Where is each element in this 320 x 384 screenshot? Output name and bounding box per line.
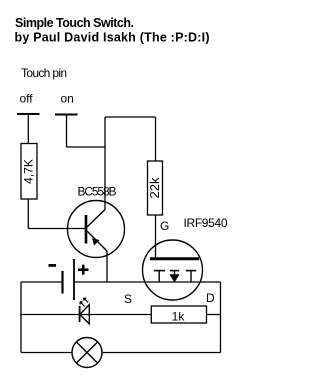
svg-text:D: D — [206, 291, 215, 305]
wire R3 to drain vertical — [207, 314, 221, 316]
wire top horizontal — [105, 116, 156, 118]
LED D1 light arrow 2 — [84, 298, 89, 303]
wire on-pin to collector node — [67, 146, 106, 148]
svg-text:22k: 22k — [147, 177, 162, 198]
wire to Q1 base — [28, 228, 85, 230]
wire LED line — [21, 314, 151, 316]
svg-text:off: off — [20, 92, 34, 106]
resistor R1 4,7K body — [21, 144, 37, 200]
wire on-pin down — [66, 115, 68, 148]
svg-text:Simple Touch Switch.: Simple Touch Switch. — [15, 16, 134, 30]
LED D1 triangle — [80, 305, 90, 324]
wire battery negative to left rail — [21, 281, 63, 283]
wire R2 to gate node G — [155, 215, 157, 258]
battery BT1 plus label — [78, 265, 89, 275]
wire drain vertical — [220, 282, 222, 353]
wire to R2 top — [155, 117, 157, 161]
svg-text:by Paul David Isakh (The :P:D:: by Paul David Isakh (The :P:D:I) — [15, 31, 210, 45]
MOSFET U1 IRF9540 — [143, 240, 203, 300]
battery BT1 positive plate — [73, 259, 75, 300]
wire bottom rail left segment — [21, 352, 72, 354]
svg-text:BC558B: BC558B — [78, 185, 117, 199]
wire positive rail battery to drain corner — [74, 281, 221, 283]
wire Q1 emitter to positive rail — [106, 251, 108, 282]
LED D1 light arrow 1 — [80, 302, 85, 307]
svg-text:Touch pin: Touch pin — [21, 66, 67, 80]
svg-text:4,7K: 4,7K — [22, 159, 36, 184]
svg-text:on: on — [61, 92, 74, 106]
svg-text:IRF9540: IRF9540 — [184, 216, 228, 230]
svg-text:G: G — [160, 219, 169, 233]
resistor R3 1k body — [151, 306, 206, 323]
wire off-pin to R1 top — [27, 114, 29, 144]
resistor R2 22k body — [148, 161, 163, 215]
wire bottom rail right segment — [102, 352, 221, 354]
touch pin ON terminal — [55, 114, 78, 116]
touch pin OFF terminal — [17, 113, 40, 115]
svg-text:1k: 1k — [172, 310, 186, 324]
svg-text:S: S — [124, 292, 132, 306]
LED D1 cathode bar — [79, 306, 81, 322]
battery BT1 negative plate — [61, 271, 63, 294]
wire left rail vertical — [20, 282, 22, 353]
wire collector vertical — [104, 117, 106, 210]
battery BT1 minus label — [49, 264, 57, 267]
transistor Q1 BC558B — [68, 201, 125, 258]
lamp LA1 — [72, 338, 102, 368]
wire R1 bottom down — [27, 199, 29, 229]
